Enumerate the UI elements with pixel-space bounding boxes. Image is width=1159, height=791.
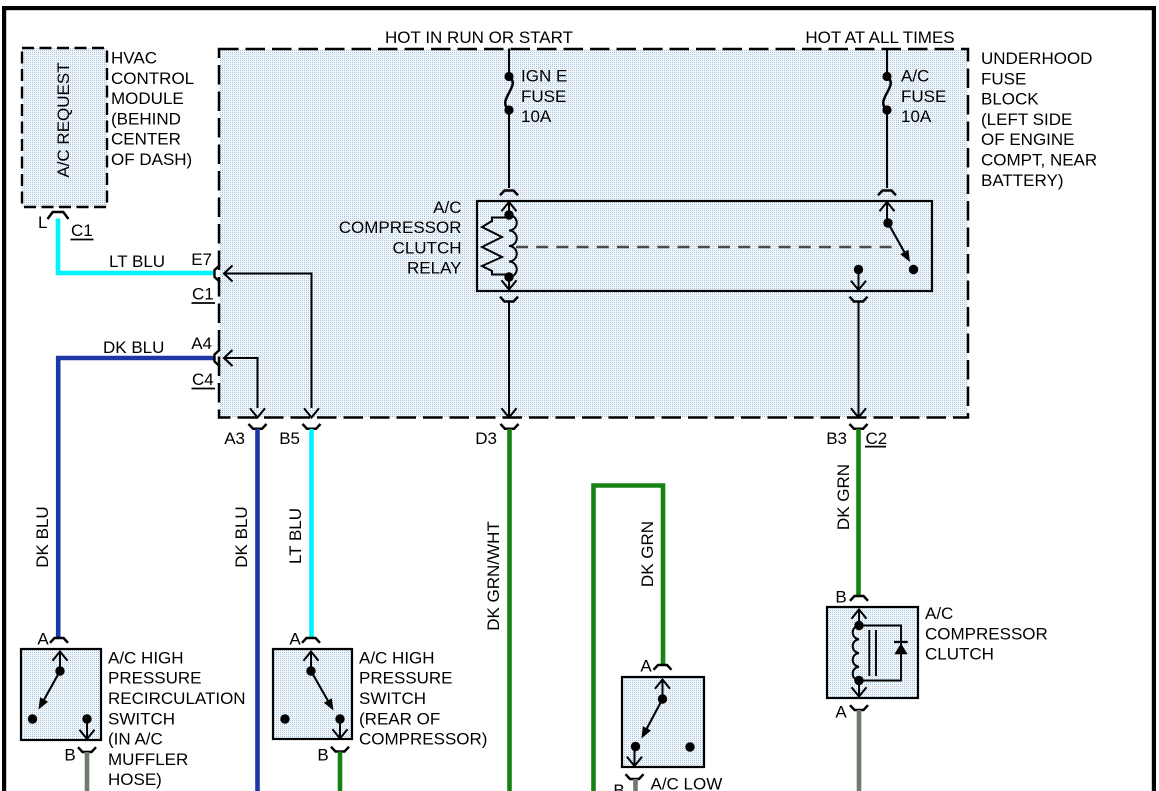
label DK GRN loop: [638, 521, 657, 587]
label UNDERHOOD FUSE BLOCK: [981, 49, 1097, 190]
svg-text:A: A: [37, 630, 49, 649]
svg-text:C4: C4: [192, 370, 214, 389]
wire relay coil to D3: [502, 302, 517, 418]
svg-text:A: A: [835, 703, 847, 722]
pin A low switch: [640, 657, 671, 676]
label A4: [191, 334, 212, 353]
label A/C REQUEST: [54, 62, 73, 177]
relay coil to box bottom: [502, 277, 517, 290]
label L: [38, 213, 47, 232]
svg-text:A/C HIGH: A/C HIGH: [359, 648, 435, 667]
label DK BLU top: [103, 338, 164, 357]
pin A recirc switch: [37, 630, 68, 649]
wire DK BLU left: [58, 358, 213, 639]
label C2: [865, 429, 887, 448]
svg-text:(BEHIND: (BEHIND: [111, 109, 181, 128]
svg-text:10A: 10A: [521, 107, 552, 126]
svg-text:B5: B5: [279, 429, 300, 448]
wire DK GRN/WHT from D3: [507, 429, 512, 791]
clutch coil node top: [854, 621, 863, 630]
svg-text:A/C HIGH: A/C HIGH: [108, 648, 184, 667]
recirc switch contact right: [82, 714, 91, 723]
low switch contact left: [631, 742, 640, 751]
pin A3: [224, 424, 266, 448]
label A/C COMPRESSOR CLUTCH RELAY: [339, 198, 462, 278]
svg-text:HOT AT ALL TIMES: HOT AT ALL TIMES: [805, 28, 954, 47]
svg-text:COMPRESSOR: COMPRESSOR: [339, 218, 462, 237]
wire GRY clutch A: [857, 710, 862, 791]
relay switch output node: [854, 265, 863, 274]
svg-text:(LEFT SIDE: (LEFT SIDE: [981, 110, 1072, 129]
relay switch top connector: [878, 191, 896, 223]
wire fuse to relay switch: [886, 110, 888, 188]
svg-text:IGN E: IGN E: [521, 67, 567, 86]
svg-text:A3: A3: [224, 429, 245, 448]
hp switch pin B lead: [333, 719, 348, 739]
pin B5: [279, 424, 320, 448]
svg-text:RELAY: RELAY: [407, 259, 462, 278]
svg-text:SWITCH: SWITCH: [108, 709, 175, 728]
svg-text:C2: C2: [866, 429, 888, 448]
label hp switch: [359, 648, 487, 748]
relay coil bottom connector: [500, 297, 518, 302]
diode D1: [894, 642, 908, 654]
pin B clutch: [835, 588, 868, 607]
svg-text:DK GRN/WHT: DK GRN/WHT: [484, 521, 503, 631]
label LT BLU vertical: [286, 508, 305, 564]
svg-text:B: B: [613, 781, 624, 791]
label HOT AT ALL TIMES: [805, 28, 954, 47]
relay switch common node: [883, 218, 892, 227]
wire DK GRN loop to low switch: [594, 486, 664, 791]
svg-text:A/C REQUEST: A/C REQUEST: [54, 62, 73, 177]
wire from HOT AT ALL TIMES: [886, 49, 888, 77]
svg-text:OF ENGINE: OF ENGINE: [981, 130, 1075, 149]
label LT BLU: [109, 252, 165, 271]
wire internal E7 to B5: [224, 266, 319, 418]
relay coil top connector: [500, 191, 518, 216]
svg-text:FUSE: FUSE: [901, 87, 946, 106]
svg-text:MODULE: MODULE: [111, 89, 184, 108]
pin B low switch: [613, 774, 643, 791]
svg-text:C1: C1: [71, 221, 93, 240]
pin E7 connector: [215, 265, 221, 282]
label C4: [192, 370, 216, 389]
A/C high pressure recirculation switch box: [21, 649, 101, 740]
svg-text:(REAR OF: (REAR OF: [359, 709, 440, 728]
svg-text:FUSE: FUSE: [521, 87, 566, 106]
recirc switch common node: [55, 666, 64, 675]
pin D3: [475, 424, 518, 448]
clutch core lines: [869, 630, 876, 676]
wire internal A4 to A3: [224, 350, 265, 418]
border frame right: [1152, 6, 1156, 791]
svg-text:A4: A4: [191, 334, 212, 353]
svg-text:(IN A/C: (IN A/C: [108, 730, 163, 749]
recirc switch pin A lead: [53, 652, 68, 672]
hp switch contact right: [335, 714, 344, 723]
svg-text:LT BLU: LT BLU: [286, 508, 305, 564]
svg-text:A/C LOW: A/C LOW: [651, 775, 723, 791]
wire DK GRN hp switch B: [338, 752, 343, 791]
label DK GRN at B3: [834, 464, 853, 530]
label DK BLU vertical left: [33, 506, 52, 567]
svg-text:A: A: [640, 657, 652, 676]
svg-text:A: A: [289, 630, 301, 649]
A/C compressor clutch box: [827, 607, 918, 698]
relay coil winding: [509, 215, 517, 277]
wire fuse to relay coil: [508, 110, 510, 188]
underhood fuse block box: [219, 49, 968, 418]
svg-text:COMPRESSOR): COMPRESSOR): [359, 730, 487, 749]
relay coil node bottom: [504, 272, 513, 281]
svg-text:B: B: [64, 746, 75, 765]
pin A high pressure switch: [289, 630, 320, 649]
pin B3: [826, 424, 867, 448]
pin B hp switch: [317, 746, 349, 765]
wire LT BLU from B5: [309, 429, 314, 639]
svg-text:BLOCK: BLOCK: [981, 90, 1039, 109]
svg-text:CLUTCH: CLUTCH: [925, 645, 994, 664]
wire GRY recirc B: [85, 752, 90, 791]
svg-text:RECIRCULATION: RECIRCULATION: [108, 689, 246, 708]
pin A4 connector: [215, 350, 221, 367]
svg-text:CLUTCH: CLUTCH: [393, 238, 462, 257]
low switch blade: [642, 699, 663, 739]
svg-text:HVAC: HVAC: [111, 49, 157, 68]
wire LT BLU: [58, 219, 214, 274]
svg-text:COMPRESSOR: COMPRESSOR: [925, 624, 1048, 643]
label E7: [191, 250, 212, 269]
svg-text:PRESSURE: PRESSURE: [108, 669, 202, 688]
clutch coil node bottom: [854, 676, 863, 685]
hp switch blade: [311, 671, 334, 711]
pin A clutch: [835, 703, 868, 722]
svg-text:DK BLU: DK BLU: [232, 506, 251, 567]
label DK BLU vertical A3: [232, 506, 251, 567]
svg-text:HOT IN RUN OR START: HOT IN RUN OR START: [385, 28, 573, 47]
relay dashed actuator line: [516, 246, 893, 248]
label HOT IN RUN OR START: [385, 28, 573, 47]
svg-text:DK GRN: DK GRN: [638, 521, 657, 587]
HVAC control module box: [22, 48, 107, 207]
border frame left: [2, 6, 6, 791]
label A/C LOW: [651, 775, 723, 791]
recirc switch blade: [39, 671, 61, 710]
A/C compressor clutch relay box: [477, 201, 932, 291]
svg-text:SWITCH: SWITCH: [359, 689, 426, 708]
label C1 at E7: [192, 285, 216, 304]
wire GRY low switch B: [633, 779, 638, 791]
low switch contact right: [685, 742, 694, 751]
svg-text:B: B: [835, 588, 846, 607]
hp switch pin A lead: [304, 652, 319, 672]
svg-text:B3: B3: [826, 429, 847, 448]
svg-text:A/C: A/C: [433, 198, 461, 217]
wire from HOT IN RUN: [508, 49, 510, 77]
hp switch contact left: [280, 714, 289, 723]
clutch diode loop: [859, 626, 901, 681]
wire relay output to B3: [851, 302, 866, 418]
svg-text:A/C: A/C: [925, 604, 953, 623]
clutch coil winding: [853, 626, 859, 681]
svg-text:B: B: [317, 746, 328, 765]
svg-text:10A: 10A: [901, 107, 932, 126]
recirc switch pin B lead: [80, 719, 95, 739]
fuse IGN E: [504, 67, 567, 127]
label HVAC CONTROL MODULE: [111, 49, 194, 170]
clutch pin B lead: [852, 610, 867, 626]
low switch pin A lead: [655, 680, 670, 700]
svg-text:L: L: [38, 213, 47, 232]
svg-text:C1: C1: [192, 285, 214, 304]
svg-text:E7: E7: [191, 250, 212, 269]
pin B recirc switch: [64, 746, 96, 765]
svg-text:UNDERHOOD: UNDERHOOD: [981, 49, 1092, 68]
border frame top: [2, 6, 1156, 10]
pin L connector: [48, 212, 69, 219]
clutch pin A lead: [852, 681, 867, 697]
relay coil resistor: [482, 218, 509, 275]
recirc switch contact left: [28, 714, 37, 723]
A/C high pressure switch box: [273, 649, 352, 739]
svg-text:D3: D3: [475, 429, 497, 448]
hp switch common node: [306, 666, 315, 675]
svg-text:MUFFLER: MUFFLER: [108, 750, 188, 769]
svg-text:BATTERY): BATTERY): [981, 171, 1064, 190]
svg-text:DK GRN: DK GRN: [834, 464, 853, 530]
relay switch contact right: [909, 265, 918, 274]
A/C low pressure switch box: [622, 677, 704, 767]
svg-text:FUSE: FUSE: [981, 69, 1026, 88]
svg-text:LT BLU: LT BLU: [109, 252, 165, 271]
svg-text:DK BLU: DK BLU: [103, 338, 164, 357]
svg-text:HOSE): HOSE): [108, 770, 162, 789]
relay switch blade: [888, 223, 910, 262]
svg-text:PRESSURE: PRESSURE: [359, 669, 453, 688]
low switch common node: [658, 694, 667, 703]
wire DK BLU from A3: [255, 429, 260, 791]
relay coil node top: [504, 210, 513, 219]
label recirc switch: [108, 648, 246, 789]
relay output to box bottom: [851, 270, 866, 291]
svg-text:COMPT, NEAR: COMPT, NEAR: [981, 151, 1097, 170]
svg-text:DK BLU: DK BLU: [33, 506, 52, 567]
svg-text:OF DASH): OF DASH): [111, 150, 192, 169]
label C1 under HVAC: [71, 221, 94, 240]
low switch pin B lead: [627, 747, 642, 767]
fuse A/C: [882, 67, 946, 127]
relay output bottom connector: [850, 297, 868, 302]
svg-text:CENTER: CENTER: [111, 130, 181, 149]
svg-text:CONTROL: CONTROL: [111, 69, 194, 88]
wire DK GRN from B3: [856, 429, 861, 595]
svg-text:A/C: A/C: [901, 67, 929, 86]
label A/C COMPRESSOR CLUTCH: [925, 604, 1048, 664]
label DK GRN/WHT: [484, 521, 503, 631]
